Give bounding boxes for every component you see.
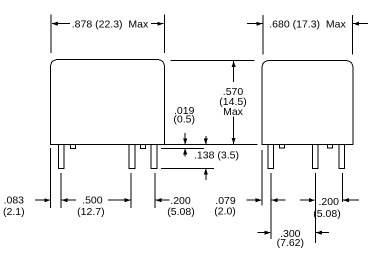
svg-text:.200: .200 [318, 196, 339, 208]
svg-text:.878 (22.3) Max: .878 (22.3) Max [72, 18, 149, 30]
svg-text:.500: .500 [82, 195, 103, 207]
svg-text:(5.08): (5.08) [313, 208, 340, 220]
svg-text:(12.7): (12.7) [77, 206, 104, 218]
svg-text:(2.0): (2.0) [214, 206, 236, 218]
svg-text:(0.5): (0.5) [173, 113, 195, 125]
svg-text:.200: .200 [170, 195, 191, 207]
svg-text:.680 (17.3) Max: .680 (17.3) Max [269, 18, 346, 30]
svg-text:.138 (3.5): .138 (3.5) [194, 149, 239, 161]
svg-text:Max: Max [223, 106, 244, 118]
svg-text:(7.62): (7.62) [277, 237, 304, 249]
svg-text:(2.1): (2.1) [3, 206, 25, 218]
svg-text:.083: .083 [4, 195, 25, 207]
svg-text:(5.08): (5.08) [167, 206, 194, 218]
